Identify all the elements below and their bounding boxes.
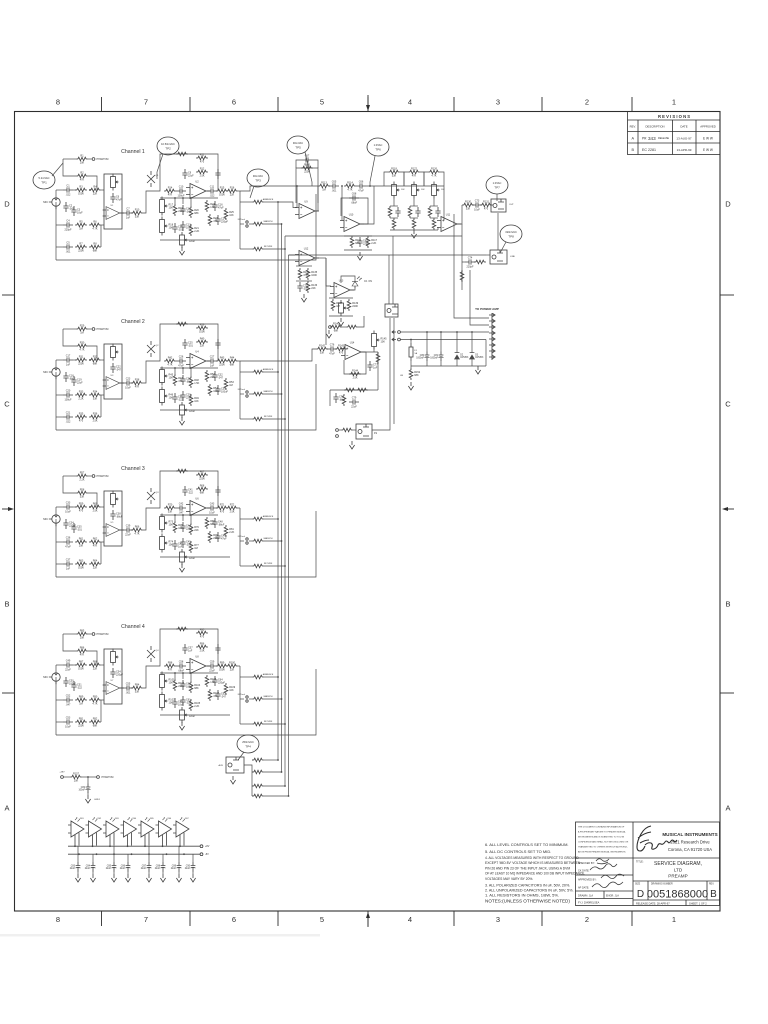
wire bbox=[373, 347, 375, 353]
resistor R80 bbox=[205, 517, 215, 529]
wire bbox=[77, 871, 79, 874]
svg-text:1M: 1M bbox=[79, 703, 82, 706]
svg-text:Channel 3: Channel 3 bbox=[121, 466, 145, 472]
svg-text:1M: 1M bbox=[194, 547, 197, 550]
svg-text:DATE: DATE bbox=[680, 125, 687, 129]
resistor R125 bbox=[412, 218, 416, 230]
svg-text:33K: 33K bbox=[135, 216, 140, 219]
capacitor C39 bbox=[123, 525, 133, 537]
svg-text:1uF: 1uF bbox=[210, 364, 215, 367]
resistor R150 bbox=[341, 428, 353, 432]
ground bbox=[179, 564, 184, 572]
potentiometer R45 bbox=[160, 367, 174, 386]
capacitor C73 bbox=[472, 200, 482, 212]
resistor R121 bbox=[392, 218, 396, 230]
resistor R87 bbox=[75, 660, 87, 670]
wire bbox=[190, 368, 192, 376]
junction bbox=[109, 845, 111, 847]
svg-text:R40: R40 bbox=[200, 337, 205, 340]
svg-text:B: B bbox=[725, 600, 730, 609]
test point TP3 bbox=[247, 169, 269, 187]
wire bbox=[339, 429, 341, 431]
junction bbox=[179, 845, 181, 847]
resistor R7 bbox=[75, 242, 87, 252]
svg-text:R14: R14 bbox=[168, 186, 173, 189]
wire bbox=[113, 846, 115, 862]
resistor R100 bbox=[226, 661, 238, 671]
wire bbox=[344, 235, 372, 237]
wire bbox=[240, 676, 252, 678]
wire bbox=[119, 687, 124, 689]
svg-text:47K: 47K bbox=[168, 669, 173, 672]
wire bbox=[426, 361, 428, 367]
wire bbox=[87, 793, 89, 796]
svg-text:.047: .047 bbox=[179, 511, 184, 514]
svg-text:A: A bbox=[725, 804, 730, 813]
connector pin 1 bbox=[489, 313, 495, 316]
op-amp U10 bbox=[340, 214, 364, 232]
resistor R33 bbox=[75, 390, 87, 400]
svg-text:C36: C36 bbox=[66, 537, 71, 540]
op-amp U7 bbox=[103, 680, 123, 695]
resistor R89 bbox=[75, 695, 87, 705]
resistor R91 bbox=[75, 717, 87, 727]
capacitor C74 bbox=[465, 257, 475, 269]
svg-text:SIZE: SIZE bbox=[635, 884, 641, 886]
junction bbox=[440, 331, 442, 333]
capacitor C38 bbox=[110, 510, 122, 520]
svg-text:U10: U10 bbox=[349, 214, 354, 217]
op-amp U9 bbox=[295, 201, 319, 219]
wire bbox=[240, 698, 244, 700]
svg-text:.001: .001 bbox=[178, 228, 183, 231]
capacitor C34 bbox=[63, 519, 76, 529]
svg-text:R122: R122 bbox=[411, 167, 418, 170]
wire bbox=[65, 201, 67, 204]
wire bbox=[492, 204, 493, 206]
ground bbox=[176, 874, 181, 882]
svg-text:343: 343 bbox=[648, 136, 656, 141]
test point TP7 bbox=[486, 176, 508, 194]
wire row B bbox=[56, 541, 63, 543]
junction bbox=[369, 185, 371, 187]
svg-text:68K: 68K bbox=[93, 250, 98, 253]
resistor R67 bbox=[196, 470, 208, 480]
resistor R153 bbox=[252, 758, 264, 762]
svg-text:C49: C49 bbox=[66, 660, 71, 663]
resistor R36 bbox=[89, 412, 101, 422]
svg-text:R60: R60 bbox=[93, 502, 98, 505]
EQ block channel 3 bbox=[104, 491, 122, 546]
connector pin 2 bbox=[489, 319, 495, 322]
wire bbox=[240, 201, 252, 203]
junction bbox=[277, 518, 279, 520]
wire mixer input bbox=[240, 349, 316, 361]
wire bbox=[182, 368, 184, 374]
capacitor C37 bbox=[63, 559, 73, 571]
jack J3 bbox=[43, 515, 60, 526]
wire bbox=[485, 340, 487, 367]
junction bbox=[277, 759, 279, 761]
resistor R62 bbox=[89, 537, 101, 547]
svg-text:R86: R86 bbox=[80, 646, 85, 649]
test point TP8 callout bbox=[500, 242, 506, 253]
svg-text:DESCRIPTION: DESCRIPTION bbox=[645, 125, 664, 129]
capacitor C7 bbox=[123, 208, 133, 220]
svg-text:R88: R88 bbox=[93, 660, 98, 663]
svg-text:22K: 22K bbox=[194, 529, 199, 532]
resistor R23 bbox=[208, 214, 218, 226]
terminal bbox=[92, 328, 95, 331]
potentiometer R119 bbox=[392, 182, 400, 199]
svg-text:U14: U14 bbox=[350, 342, 355, 345]
svg-text:TP6: TP6 bbox=[375, 147, 381, 151]
ground bbox=[179, 247, 184, 255]
zone tick left bbox=[2, 294, 15, 296]
EQ block channel 2 bbox=[104, 344, 122, 399]
svg-text:100K: 100K bbox=[78, 567, 84, 570]
signature 1 bbox=[590, 859, 617, 870]
resistor R14 bbox=[164, 186, 176, 196]
svg-text:10uF: 10uF bbox=[209, 511, 215, 514]
resistor R10 bbox=[131, 208, 143, 218]
resistor R141 bbox=[346, 325, 358, 329]
resistor R157 bbox=[70, 772, 82, 782]
resistor R112 bbox=[252, 722, 264, 726]
junction bbox=[281, 771, 283, 773]
svg-text:A PROPRIETARY NATURE TO FENDER: A PROPRIETARY NATURE TO FENDER MUSICAL bbox=[578, 831, 627, 834]
junction bbox=[148, 853, 150, 855]
svg-text:R114: R114 bbox=[347, 181, 353, 184]
svg-text:4. ALL VOLTAGES MEASURED WITH: 4. ALL VOLTAGES MEASURED WITH RESPECT TO… bbox=[485, 856, 579, 860]
test point TP1 callout bbox=[52, 163, 63, 176]
resistor R16 bbox=[226, 186, 238, 196]
wire to tone stack bbox=[366, 185, 388, 187]
resistor R72 bbox=[226, 503, 238, 513]
wire to bus bbox=[264, 723, 285, 725]
wire bbox=[404, 172, 408, 186]
svg-text:1: 1 bbox=[672, 915, 676, 924]
wire bbox=[240, 418, 252, 420]
svg-text:10K: 10K bbox=[229, 214, 234, 217]
wire drop bbox=[470, 270, 489, 325]
svg-text:R E V I S I O N S: R E V I S I O N S bbox=[658, 114, 690, 119]
svg-text:R31: R31 bbox=[79, 355, 84, 358]
wire bbox=[353, 429, 356, 431]
wire bbox=[101, 359, 104, 361]
dp track pads bbox=[238, 218, 248, 227]
wire feedback bbox=[296, 168, 318, 203]
wire bbox=[174, 368, 176, 374]
svg-text:100uF: 100uF bbox=[64, 398, 72, 401]
wire bbox=[88, 176, 97, 190]
test point TP6 bbox=[367, 138, 389, 156]
polarized capacitor C87 bbox=[141, 862, 152, 872]
svg-text:1uF: 1uF bbox=[178, 545, 183, 548]
svg-text:R42: R42 bbox=[168, 356, 173, 359]
resistor R48 bbox=[189, 376, 199, 388]
resistor R105 bbox=[189, 699, 201, 711]
resistor R70 bbox=[164, 503, 176, 513]
svg-text:APPROVED: APPROVED bbox=[700, 125, 716, 129]
ground bbox=[338, 318, 343, 326]
svg-text:C: C bbox=[4, 400, 10, 409]
wire row C bbox=[56, 416, 63, 418]
svg-text:PHANTOM: PHANTOM bbox=[97, 633, 109, 636]
svg-text:NOTES:(UNLESS OTHERWISE NOTED): NOTES:(UNLESS OTHERWISE NOTED) bbox=[485, 899, 570, 904]
svg-text:PHANTOM: PHANTOM bbox=[97, 475, 109, 478]
resistor R96 bbox=[196, 642, 208, 652]
wire master input bbox=[240, 186, 297, 191]
wire riser bbox=[143, 361, 156, 383]
svg-text:22uF: 22uF bbox=[70, 868, 76, 870]
svg-text:1.5K: 1.5K bbox=[194, 382, 199, 385]
svg-text:R29: R29 bbox=[80, 324, 85, 327]
wire bbox=[174, 673, 176, 679]
resistor R59 bbox=[75, 502, 87, 512]
svg-text:LTD: LTD bbox=[674, 868, 683, 873]
transistor Q1 bbox=[147, 171, 159, 187]
wire bbox=[63, 634, 76, 651]
svg-text:4.7K: 4.7K bbox=[79, 349, 84, 352]
svg-text:C79: C79 bbox=[352, 397, 357, 400]
wire bbox=[471, 361, 473, 366]
svg-text:470: 470 bbox=[339, 352, 344, 355]
wire bus 3 bbox=[284, 236, 286, 786]
wire bbox=[65, 676, 67, 679]
junction bbox=[182, 514, 184, 516]
svg-text:C53: C53 bbox=[66, 717, 71, 720]
zone tick right bbox=[720, 294, 734, 296]
svg-text:220pF: 220pF bbox=[64, 228, 72, 231]
test point TP6 callout bbox=[370, 156, 375, 186]
svg-text:R58: R58 bbox=[80, 488, 85, 491]
svg-text:1.5K: 1.5K bbox=[199, 650, 204, 653]
wire row A bbox=[56, 359, 63, 361]
polarized capacitor C81 bbox=[430, 352, 443, 362]
ground bbox=[408, 382, 413, 390]
junction bbox=[74, 845, 76, 847]
wire bbox=[240, 371, 252, 373]
svg-text:1.5K: 1.5K bbox=[92, 510, 97, 513]
ground bbox=[230, 776, 235, 784]
resistor R2 bbox=[76, 171, 88, 181]
svg-text:1uF: 1uF bbox=[305, 163, 310, 166]
wire bbox=[178, 871, 180, 874]
ground bbox=[190, 874, 195, 882]
svg-text:WARMTH: WARMTH bbox=[264, 220, 273, 223]
op-amp U8 bbox=[186, 656, 210, 674]
junction bbox=[89, 664, 91, 666]
junction bbox=[92, 845, 94, 847]
wire bbox=[329, 297, 353, 299]
svg-text:10K: 10K bbox=[229, 689, 234, 692]
wire bbox=[312, 160, 318, 168]
wire bbox=[88, 328, 92, 330]
svg-text:RETURN: RETURN bbox=[264, 721, 273, 723]
wire bbox=[63, 329, 76, 346]
svg-text:3. ALL POLARIZED CAPACITORS IN: 3. ALL POLARIZED CAPACITORS IN uF, 50V, … bbox=[485, 884, 570, 888]
resistor R108 bbox=[205, 675, 217, 687]
wire bbox=[437, 227, 439, 230]
svg-text:.047: .047 bbox=[66, 703, 71, 706]
svg-text:R113: R113 bbox=[321, 181, 327, 184]
test point TP3 callout bbox=[250, 186, 254, 198]
terminal bbox=[97, 776, 100, 779]
wire bottom loop bbox=[56, 669, 316, 735]
svg-text:68K: 68K bbox=[334, 330, 339, 333]
ground bbox=[146, 874, 151, 882]
title block bbox=[576, 822, 721, 906]
op-amp U1 bbox=[103, 205, 123, 220]
zone tick bottom bbox=[631, 911, 633, 926]
wire bbox=[341, 186, 343, 221]
svg-text:1uF: 1uF bbox=[373, 366, 378, 369]
svg-text:U12: U12 bbox=[304, 248, 309, 251]
svg-text:22K: 22K bbox=[200, 345, 205, 348]
capacitor C3 bbox=[71, 206, 83, 216]
svg-text:470: 470 bbox=[220, 511, 225, 514]
resistor R79 bbox=[208, 531, 219, 543]
svg-text:R32: R32 bbox=[93, 355, 98, 358]
junction bbox=[89, 189, 91, 191]
resistor R69 bbox=[176, 469, 188, 473]
ground bbox=[326, 330, 331, 338]
resistor R1 bbox=[76, 154, 88, 164]
svg-text:4.7K: 4.7K bbox=[134, 533, 139, 536]
capacitor C2 bbox=[63, 202, 74, 212]
resistor R5 bbox=[75, 220, 87, 230]
svg-text:22uF: 22uF bbox=[171, 868, 177, 870]
resistor R81 bbox=[224, 525, 234, 537]
svg-text:REV.: REV. bbox=[630, 125, 636, 129]
svg-text:R87: R87 bbox=[79, 660, 84, 663]
svg-text:C43: C43 bbox=[210, 503, 215, 506]
resistor R29 bbox=[76, 324, 88, 334]
svg-text:22K: 22K bbox=[93, 567, 98, 570]
svg-text:R66: R66 bbox=[135, 525, 140, 528]
svg-text:SHEET: 1 OF 2: SHEET: 1 OF 2 bbox=[689, 901, 707, 905]
wire bbox=[73, 359, 76, 361]
wire bbox=[65, 676, 67, 678]
junction bbox=[284, 785, 286, 787]
svg-text:REV.: REV. bbox=[709, 884, 715, 886]
svg-text:Level: Level bbox=[189, 715, 195, 718]
wire bbox=[88, 158, 92, 160]
resistor R49 bbox=[189, 394, 199, 406]
wire to bus bbox=[264, 518, 278, 520]
svg-text:8: 8 bbox=[56, 915, 60, 924]
svg-text:220pF: 220pF bbox=[466, 265, 474, 268]
resistor R156 bbox=[252, 794, 264, 798]
junction bbox=[284, 565, 286, 567]
svg-text:4: 4 bbox=[408, 915, 412, 924]
svg-text:190mVAC: 190mVAC bbox=[505, 230, 517, 234]
svg-text:6: 6 bbox=[232, 915, 236, 924]
svg-text:47K: 47K bbox=[80, 179, 85, 182]
svg-text:R96: R96 bbox=[200, 642, 205, 645]
capacitor C72 bbox=[435, 207, 440, 217]
wire to bus bbox=[264, 418, 285, 420]
svg-text:C26: C26 bbox=[179, 356, 184, 359]
capacitor C54 bbox=[110, 668, 123, 678]
svg-text:10.53mVAC: 10.53mVAC bbox=[161, 142, 175, 146]
svg-text:4: 4 bbox=[408, 98, 412, 107]
svg-text:1M: 1M bbox=[229, 384, 232, 387]
svg-text:33K: 33K bbox=[168, 511, 173, 514]
svg-text:R35: R35 bbox=[79, 412, 84, 415]
resistor R86 bbox=[76, 646, 88, 656]
svg-text:68K: 68K bbox=[200, 492, 205, 495]
wire bbox=[456, 332, 458, 351]
ground bbox=[475, 366, 480, 374]
capacitor C4 bbox=[63, 220, 73, 232]
svg-text:220K: 220K bbox=[352, 305, 358, 308]
wire bbox=[240, 393, 244, 395]
dp track pads bbox=[238, 535, 248, 544]
svg-text:D: D bbox=[637, 889, 644, 900]
svg-text:MUSICAL INSTRUMENTS: MUSICAL INSTRUMENTS bbox=[662, 832, 717, 837]
potentiometer R46 bbox=[160, 387, 174, 406]
wire phantom row bbox=[63, 328, 76, 330]
test point TP2 callout bbox=[157, 154, 163, 179]
svg-text:VOLTAGES MAY VARY BY 20%.: VOLTAGES MAY VARY BY 20%. bbox=[485, 877, 533, 881]
junction bbox=[281, 540, 283, 542]
svg-text:47K: 47K bbox=[93, 545, 98, 548]
junction bbox=[284, 248, 286, 250]
svg-text:R12: R12 bbox=[200, 167, 205, 170]
wire jack to row A bbox=[55, 507, 57, 515]
polarized capacitor C82 bbox=[78, 784, 90, 794]
capacitor C20 bbox=[63, 390, 73, 402]
wire bbox=[443, 186, 445, 221]
svg-text:C37: C37 bbox=[66, 559, 71, 562]
svg-text:.022: .022 bbox=[77, 686, 82, 689]
wire feedback bbox=[344, 352, 366, 374]
ground bbox=[411, 230, 416, 238]
junction bbox=[96, 853, 98, 855]
wire to bus bbox=[264, 759, 278, 761]
polarized capacitor C88 bbox=[155, 862, 166, 872]
dp track pads bbox=[238, 388, 248, 397]
capacitor C47 bbox=[172, 540, 183, 550]
wire bbox=[486, 254, 490, 256]
resistor R110 bbox=[252, 675, 264, 679]
potentiometer R65 bbox=[111, 491, 119, 508]
svg-text:2.2K: 2.2K bbox=[229, 531, 234, 534]
zone tick top bbox=[453, 97, 455, 112]
capacitor C30 bbox=[215, 385, 228, 395]
zone tick bottom bbox=[189, 911, 191, 926]
svg-text:R11: R11 bbox=[200, 153, 205, 156]
wire bbox=[410, 361, 412, 368]
wire jack riser 2 bbox=[392, 236, 394, 304]
svg-text:TP7: TP7 bbox=[494, 185, 500, 189]
wire bbox=[156, 496, 160, 508]
resistor R53 bbox=[224, 378, 234, 390]
wire bbox=[190, 515, 192, 523]
wire bbox=[400, 172, 404, 186]
resistor R42 bbox=[164, 356, 176, 366]
wire bbox=[88, 651, 97, 665]
junction bbox=[277, 676, 279, 678]
capacitor C71 bbox=[415, 207, 420, 217]
connector pin 6 bbox=[489, 343, 495, 346]
svg-text:47uF: 47uF bbox=[329, 352, 335, 355]
wire bbox=[100, 225, 102, 247]
svg-text:47uF: 47uF bbox=[65, 545, 71, 548]
ground bbox=[85, 795, 90, 803]
